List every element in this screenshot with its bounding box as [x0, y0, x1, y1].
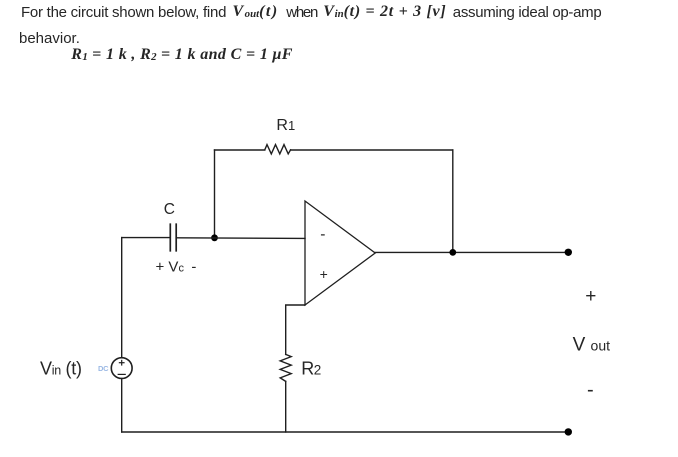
wire: feedback left vertical [214, 150, 216, 238]
title text line 3: component values [71, 46, 293, 64]
node: junction at inverting input [211, 234, 218, 241]
wire: feedback top rail right segment [291, 149, 453, 151]
svg-text:+ Vc-: + Vc- [156, 258, 197, 275]
title text line 1 [21, 4, 226, 21]
label R1 [276, 117, 295, 134]
label DC [98, 364, 109, 373]
op-amp U1 [305, 201, 375, 305]
wire: capacitor to op-amp inverting input [176, 237, 305, 240]
label V out [573, 334, 611, 355]
wire: op-amp output [375, 251, 568, 253]
resistor R2 [280, 354, 291, 381]
svg-text:R2: R2 [301, 359, 321, 379]
svg-text:R1: R1 [276, 117, 295, 134]
wire: non-inverting input step [286, 305, 305, 354]
svg-text:-: - [587, 379, 594, 401]
node: output terminal dot [565, 249, 572, 256]
wire: bottom rail [122, 431, 569, 433]
wire: left vertical upper (to Vin source) [121, 238, 123, 358]
label +Vc- [156, 258, 197, 275]
label - (output polarity) [587, 379, 594, 401]
node: output junction [449, 249, 456, 256]
svg-text:V out: V out [573, 334, 611, 355]
label C [164, 201, 175, 218]
wire: from left vertical to capacitor [122, 237, 170, 239]
label Vin (t) [40, 358, 82, 378]
svg-text:DC: DC [98, 364, 109, 373]
wire: feedback right vertical [452, 150, 454, 253]
wire: feedback top rail left segment [215, 149, 265, 151]
svg-text:+: + [585, 286, 596, 307]
capacitor C [170, 224, 176, 251]
resistor R1 [265, 145, 291, 154]
svg-text:+: + [320, 266, 328, 282]
wire: R2 to bottom rail [285, 381, 287, 432]
node: bottom terminal dot [565, 428, 572, 435]
label + (output polarity) [585, 286, 596, 307]
svg-text:Vin (t): Vin (t) [40, 358, 82, 378]
title text line 2 [19, 30, 80, 47]
label R2 [301, 359, 321, 379]
svg-text:-: - [320, 226, 325, 243]
svg-text:C: C [164, 201, 175, 218]
wire: left vertical lower (Vin to bottom rail) [121, 379, 123, 433]
source Vin (t) [111, 358, 132, 379]
